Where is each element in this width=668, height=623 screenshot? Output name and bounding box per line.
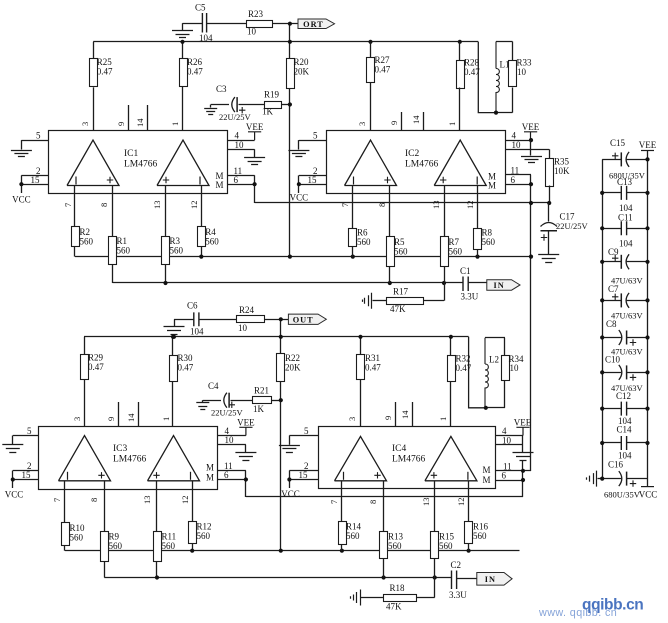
svg-text:VCC: VCC bbox=[5, 490, 24, 500]
IC1 right pin 10 wire to ground bbox=[228, 149, 255, 151]
svg-text:VEE: VEE bbox=[639, 140, 657, 150]
resistor R17 47K bbox=[444, 283, 446, 301]
svg-text:7: 7 bbox=[340, 203, 350, 207]
op-amp IC2 amp B triangle bbox=[434, 140, 486, 186]
svg-text:20K: 20K bbox=[285, 363, 301, 373]
ground at IC4 pin 4/10 column bbox=[522, 436, 524, 453]
svg-text:R20: R20 bbox=[294, 57, 310, 67]
svg-text:12: 12 bbox=[465, 201, 475, 210]
svg-text:R22: R22 bbox=[285, 353, 300, 363]
svg-text:VCC: VCC bbox=[12, 195, 31, 205]
svg-text:C10: C10 bbox=[605, 355, 621, 365]
IC2 left pins 2/15 wires bbox=[299, 175, 326, 177]
junction dots inverting bus bbox=[199, 255, 203, 259]
svg-text:C1: C1 bbox=[460, 266, 471, 276]
svg-text:12: 12 bbox=[189, 201, 199, 210]
svg-text:6: 6 bbox=[511, 175, 516, 185]
svg-text:C7: C7 bbox=[608, 284, 619, 294]
svg-text:C12: C12 bbox=[616, 391, 631, 401]
op-amp IC1 amp A triangle bbox=[67, 140, 119, 186]
svg-text:M: M bbox=[206, 473, 214, 483]
resistor R20 20K bbox=[289, 42, 291, 58]
inductor L1 with resistor R33 10 parallel network bbox=[496, 41, 513, 43]
resistor R29 0.47 bbox=[84, 337, 86, 355]
resistor R4 560 bbox=[198, 227, 206, 247]
svg-text:R18: R18 bbox=[390, 583, 406, 593]
svg-text:7: 7 bbox=[63, 203, 73, 207]
resistor R5 560 bbox=[387, 237, 395, 267]
node OUT output tag bbox=[288, 314, 326, 324]
svg-text:14: 14 bbox=[400, 410, 410, 419]
IC4 left pins 2/15 wires bbox=[289, 470, 318, 472]
wire: R22 feedback column bbox=[280, 319, 282, 550]
svg-text:M: M bbox=[206, 463, 214, 473]
svg-text:11: 11 bbox=[511, 165, 520, 175]
svg-text:0.47: 0.47 bbox=[88, 362, 104, 372]
svg-text:R12: R12 bbox=[197, 522, 212, 532]
resistor R12 560 bbox=[189, 522, 197, 544]
svg-text:560: 560 bbox=[197, 531, 211, 541]
svg-text:R28: R28 bbox=[464, 58, 480, 68]
op-amp IC2 LM4766 package box bbox=[327, 131, 506, 194]
IC1 top pin stubs 9 and 14 bbox=[128, 105, 130, 131]
resistor R26 0.47 bbox=[182, 42, 184, 59]
IC2 right pins 11/6 wires bbox=[505, 174, 531, 176]
wire: output net OUT bottom horizontal bus bbox=[84, 336, 469, 338]
svg-text:10: 10 bbox=[502, 435, 512, 445]
svg-text:R3: R3 bbox=[170, 236, 181, 246]
svg-text:C5: C5 bbox=[195, 3, 206, 13]
capacitor C9 47U/63V bbox=[602, 261, 621, 263]
capacitor C1 3.3U bbox=[463, 277, 468, 292]
capacitor C6 104 with leads bbox=[194, 312, 199, 326]
op-amp IC2 amp A triangle bbox=[345, 140, 397, 186]
svg-text:0.47: 0.47 bbox=[178, 363, 194, 373]
junction dots bottom inverting bus bbox=[190, 549, 194, 553]
svg-text:8: 8 bbox=[377, 203, 387, 207]
capacitor C15 680U/35V bbox=[602, 159, 621, 161]
wire: mute bus under IC3/IC4 bbox=[246, 496, 523, 498]
op-amp IC4 amp B triangle bbox=[425, 436, 477, 480]
ground at C5 / output bus bbox=[182, 23, 184, 30]
svg-text:13: 13 bbox=[431, 201, 441, 210]
node VCC at IC1 bbox=[19, 182, 23, 186]
svg-text:560: 560 bbox=[482, 237, 496, 247]
resistor R15 560 bbox=[431, 532, 439, 559]
resistor R28 0.47 bbox=[459, 42, 461, 60]
ground at IC1 pin 10 bbox=[244, 158, 265, 165]
op-amp IC3 LM4766 package box bbox=[39, 427, 218, 490]
resistor R3 560 bbox=[162, 237, 170, 265]
wire: long mute-net vertical x531 bbox=[530, 175, 532, 471]
svg-text:680U/35V: 680U/35V bbox=[604, 490, 641, 500]
capacitor C14 104 bbox=[602, 442, 621, 444]
svg-text:C2: C2 bbox=[451, 560, 462, 570]
node VCC at IC4 bbox=[287, 477, 291, 481]
svg-text:VEE: VEE bbox=[237, 418, 255, 428]
svg-text:5: 5 bbox=[313, 131, 318, 141]
svg-text:3: 3 bbox=[72, 417, 82, 421]
svg-text:R7: R7 bbox=[449, 237, 460, 247]
svg-text:8: 8 bbox=[99, 203, 109, 207]
svg-text:22U/25V: 22U/25V bbox=[219, 112, 252, 122]
IC1 left pins 2/15 wires bbox=[21, 175, 49, 177]
svg-text:22U/25V: 22U/25V bbox=[211, 408, 244, 418]
svg-text:22U/25V: 22U/25V bbox=[556, 221, 589, 231]
svg-text:10: 10 bbox=[235, 140, 245, 150]
svg-text:IC3: IC3 bbox=[113, 444, 128, 454]
IC3 right pin 4 wire and VEE bbox=[218, 435, 246, 437]
resistor R14 560 bbox=[339, 522, 347, 545]
IC4 right pin 10 wire bbox=[496, 444, 524, 446]
resistor R7 560 bbox=[441, 237, 449, 267]
wire: non-inverting input bus to C2 (R9/R11/R13/R15) bbox=[104, 577, 451, 579]
junction dots capacitor chain rails bbox=[600, 191, 604, 195]
svg-text:IC1: IC1 bbox=[124, 149, 139, 159]
svg-text:R8: R8 bbox=[482, 228, 493, 238]
svg-text:10K: 10K bbox=[554, 166, 570, 176]
node VCC at IC2 bbox=[297, 182, 301, 186]
svg-text:3.3U: 3.3U bbox=[449, 590, 467, 600]
svg-text:R29: R29 bbox=[88, 353, 104, 363]
IC2 left pin 5 wire bbox=[299, 140, 326, 142]
resistor R9 560 bbox=[101, 532, 109, 562]
svg-text:M: M bbox=[488, 181, 496, 191]
svg-text:47K: 47K bbox=[386, 602, 402, 612]
svg-text:VCC: VCC bbox=[290, 193, 309, 203]
svg-text:3: 3 bbox=[347, 417, 357, 421]
svg-text:R32: R32 bbox=[456, 354, 471, 364]
svg-text:R26: R26 bbox=[187, 57, 203, 67]
svg-text:9: 9 bbox=[389, 121, 399, 125]
svg-text:qqibb.cn: qqibb.cn bbox=[582, 597, 643, 614]
svg-text:R33: R33 bbox=[517, 58, 533, 68]
resistor R8 560 bbox=[474, 229, 482, 250]
svg-text:C16: C16 bbox=[608, 460, 624, 470]
node ORT output tag bbox=[298, 19, 335, 29]
svg-text:6: 6 bbox=[502, 471, 507, 481]
IC2 right pin 4 wire and VEE bbox=[505, 140, 531, 142]
svg-text:560: 560 bbox=[439, 541, 453, 551]
ground at IC4 pin5 bbox=[289, 436, 291, 445]
svg-text:15: 15 bbox=[22, 470, 32, 480]
capacitor C17 22U/25V electrolytic bbox=[548, 203, 550, 222]
wire: supply capacitor chain right rail bbox=[647, 150, 649, 487]
IC4 left pin 5 wire bbox=[289, 435, 318, 437]
capacitor C2 3.3U bbox=[452, 571, 457, 590]
svg-text:M: M bbox=[215, 180, 223, 190]
resistor R35 10K bbox=[549, 149, 551, 158]
capacitor C7 47U/63V bbox=[602, 300, 621, 302]
svg-text:C9: C9 bbox=[608, 247, 619, 257]
capacitor C5 104 with leads bbox=[202, 13, 206, 33]
node VCC at capacitor chain bottom bbox=[641, 486, 654, 488]
node IN input tag (lower) bbox=[477, 573, 512, 586]
op-amp IC1 LM4766 package box bbox=[49, 131, 228, 194]
IC1 bottom pin stubs bbox=[74, 186, 76, 228]
svg-text:0.47: 0.47 bbox=[97, 67, 113, 77]
svg-text:0.47: 0.47 bbox=[464, 67, 480, 77]
resistor R2 560 bbox=[72, 227, 80, 247]
svg-text:OUT: OUT bbox=[293, 315, 314, 324]
resistor R11 560 bbox=[154, 532, 162, 562]
ground at C4 bbox=[202, 400, 204, 402]
svg-text:47K: 47K bbox=[390, 304, 406, 314]
svg-text:560: 560 bbox=[388, 541, 402, 551]
svg-text:10: 10 bbox=[517, 67, 527, 77]
resistor R6 560 bbox=[349, 229, 357, 247]
svg-text:10: 10 bbox=[510, 363, 520, 373]
svg-text:7: 7 bbox=[52, 498, 62, 502]
svg-text:560: 560 bbox=[117, 246, 131, 256]
resistor R22 20K bbox=[277, 354, 285, 382]
svg-text:10: 10 bbox=[247, 27, 257, 37]
svg-text:M: M bbox=[482, 465, 490, 475]
svg-text:10: 10 bbox=[238, 323, 248, 333]
svg-text:C4: C4 bbox=[208, 381, 219, 391]
svg-text:0.47: 0.47 bbox=[375, 65, 391, 75]
svg-text:20K: 20K bbox=[294, 67, 310, 77]
svg-text:0.47: 0.47 bbox=[187, 67, 203, 77]
svg-text:L2: L2 bbox=[489, 355, 499, 365]
svg-text:0.47: 0.47 bbox=[456, 363, 472, 373]
resistor R31 0.47 bbox=[360, 337, 362, 355]
svg-text:1K: 1K bbox=[262, 107, 274, 117]
svg-text:C14: C14 bbox=[617, 425, 633, 435]
svg-text:560: 560 bbox=[80, 237, 94, 247]
wire: inverting 560-ohm bus bottom (R10/R12/R14/R16) bbox=[65, 550, 520, 552]
svg-text:R9: R9 bbox=[109, 532, 120, 542]
capacitor C10 47U/63V bbox=[602, 372, 621, 374]
IC2 right pin 10 wire to R35 bbox=[505, 149, 549, 151]
IC2 top pin stubs 9 and 14 bbox=[401, 112, 403, 131]
svg-text:R16: R16 bbox=[473, 522, 489, 532]
junction dots top output bus bbox=[180, 40, 184, 44]
IC3 top pin stubs 9 and 14 bbox=[118, 402, 120, 426]
svg-text:560: 560 bbox=[205, 237, 219, 247]
junction dots bottom output bus bbox=[171, 335, 175, 339]
svg-text:VEE: VEE bbox=[246, 122, 264, 132]
svg-text:C6: C6 bbox=[187, 301, 198, 311]
resistor R19 1K bbox=[265, 102, 282, 109]
svg-text:R11: R11 bbox=[162, 532, 177, 542]
IC1 right pin 4 wire and VEE bbox=[228, 140, 255, 142]
resistor R10 560 bbox=[62, 523, 70, 546]
svg-text:104: 104 bbox=[619, 239, 633, 249]
svg-text:R10: R10 bbox=[70, 523, 86, 533]
capacitor C11 104 bbox=[602, 228, 621, 230]
capacitor C8 47U/63V bbox=[602, 337, 621, 339]
ground at capacitor chain bottom bbox=[598, 478, 603, 480]
svg-text:IN: IN bbox=[494, 281, 505, 290]
svg-text:VCC: VCC bbox=[639, 490, 658, 500]
wire: non-inverting input bus to C1 (R1/R3/R5/R7) bbox=[113, 282, 464, 284]
svg-text:15: 15 bbox=[308, 175, 318, 185]
svg-text:7: 7 bbox=[329, 500, 339, 504]
ground at IC1 pin5 bbox=[21, 140, 23, 149]
svg-text:10: 10 bbox=[225, 435, 235, 445]
resistor R18 47K bbox=[434, 578, 436, 598]
op-amp IC4 LM4766 package box bbox=[319, 427, 496, 489]
svg-text:560: 560 bbox=[109, 541, 123, 551]
IC4 bottom pin stubs bbox=[341, 481, 343, 522]
IC4 top pin stubs 9 and 14 bbox=[395, 402, 397, 427]
svg-text:9: 9 bbox=[116, 122, 126, 126]
svg-text:5: 5 bbox=[36, 131, 41, 141]
svg-text:R14: R14 bbox=[346, 522, 362, 532]
ground at C17 bbox=[548, 231, 550, 255]
ground at IC2 pin 4 bbox=[530, 140, 532, 155]
wire: L2 network drop from output bus bbox=[469, 337, 485, 408]
ground at C3 bbox=[210, 105, 212, 108]
resistor R21 1K bbox=[253, 397, 272, 404]
svg-text:13: 13 bbox=[152, 201, 162, 210]
svg-text:R6: R6 bbox=[357, 228, 368, 238]
svg-text:C15: C15 bbox=[610, 138, 626, 148]
svg-text:ORT: ORT bbox=[303, 20, 324, 29]
svg-text:104: 104 bbox=[190, 327, 204, 337]
svg-text:LM4766: LM4766 bbox=[392, 455, 426, 465]
ground at IC3 pin 10 bbox=[235, 453, 256, 461]
svg-text:IN: IN bbox=[485, 575, 496, 584]
op-amp IC1 amp B triangle bbox=[157, 140, 209, 186]
resistor R25 0.47 bbox=[93, 42, 95, 59]
svg-text:5: 5 bbox=[304, 426, 309, 436]
svg-text:8: 8 bbox=[89, 498, 99, 502]
svg-text:LM4766: LM4766 bbox=[124, 160, 158, 170]
svg-text:R13: R13 bbox=[388, 532, 404, 542]
IC1 left pin 5 wire bbox=[21, 140, 49, 142]
svg-text:LM4766: LM4766 bbox=[405, 160, 439, 170]
wire: supply capacitor chain left rail bbox=[602, 159, 604, 478]
svg-text:14: 14 bbox=[135, 118, 145, 127]
wire: output net ORT top horizontal bus bbox=[93, 41, 478, 43]
svg-text:15: 15 bbox=[31, 175, 41, 185]
svg-text:3: 3 bbox=[357, 122, 367, 126]
svg-text:560: 560 bbox=[162, 541, 176, 551]
svg-text:R1: R1 bbox=[117, 236, 128, 246]
node VCC at IC3 bbox=[11, 477, 15, 481]
junction dots bottom non-inverting bus bbox=[155, 575, 159, 579]
svg-text:VEE: VEE bbox=[514, 418, 532, 428]
svg-text:R25: R25 bbox=[97, 57, 113, 67]
svg-text:1: 1 bbox=[447, 122, 457, 126]
resistor R30 0.47 bbox=[172, 337, 174, 356]
resistor R23 10 bbox=[247, 21, 273, 28]
svg-text:9: 9 bbox=[106, 417, 116, 421]
IC3 left pins 2/15 wires bbox=[13, 470, 39, 472]
svg-text:R19: R19 bbox=[264, 90, 280, 100]
svg-text:R17: R17 bbox=[393, 287, 409, 297]
node IN input tag (upper) bbox=[487, 280, 520, 291]
svg-text:M: M bbox=[482, 475, 490, 485]
svg-text:R35: R35 bbox=[554, 157, 570, 167]
svg-text:560: 560 bbox=[170, 246, 184, 256]
resistor R1 560 bbox=[109, 237, 117, 265]
IC3 right pins 11/6 wires bbox=[218, 470, 246, 472]
junction dots mute bus bbox=[529, 201, 533, 205]
wire: mute bus under IC1/IC2 (pin 6/11 net) bbox=[255, 202, 550, 204]
svg-text:13: 13 bbox=[142, 496, 152, 505]
svg-text:560: 560 bbox=[357, 237, 371, 247]
IC4 right pins 11/6 wires bbox=[496, 470, 532, 472]
ground at C6 / output bus bbox=[174, 319, 176, 326]
svg-text:R2: R2 bbox=[80, 227, 91, 237]
svg-text:1: 1 bbox=[170, 122, 180, 126]
IC2 bottom pin stubs bbox=[352, 186, 354, 229]
svg-text:12: 12 bbox=[180, 496, 190, 505]
svg-text:C13: C13 bbox=[617, 177, 633, 187]
svg-text:104: 104 bbox=[199, 33, 213, 43]
IC4 right pin 4 wire and VEE bbox=[496, 435, 524, 437]
svg-text:13: 13 bbox=[421, 498, 431, 507]
svg-text:0.47: 0.47 bbox=[365, 363, 381, 373]
IC3 right pin 10 wire to ground bbox=[218, 444, 246, 446]
ground at R17 bbox=[363, 293, 372, 309]
svg-text:3: 3 bbox=[80, 122, 90, 126]
ground at IC3 pin5 bbox=[12, 436, 14, 445]
svg-text:C11: C11 bbox=[618, 213, 633, 223]
svg-text:1: 1 bbox=[161, 417, 171, 421]
svg-text:8: 8 bbox=[368, 500, 378, 504]
svg-text:C8: C8 bbox=[606, 319, 617, 329]
ground at IC2 pin5 bbox=[298, 140, 300, 149]
svg-text:R4: R4 bbox=[205, 227, 216, 237]
svg-text:LM4766: LM4766 bbox=[113, 455, 147, 465]
svg-text:15: 15 bbox=[299, 470, 309, 480]
svg-text:IC2: IC2 bbox=[405, 149, 420, 159]
resistor R27 0.47 bbox=[370, 42, 372, 58]
IC3 bottom pin stubs bbox=[64, 481, 66, 523]
svg-text:3.3U: 3.3U bbox=[461, 292, 479, 302]
inductor L2 with resistor R34 10 parallel network bbox=[485, 337, 505, 339]
svg-text:C17: C17 bbox=[560, 212, 576, 222]
svg-text:VCC: VCC bbox=[281, 489, 300, 499]
svg-text:12: 12 bbox=[456, 498, 466, 507]
svg-text:560: 560 bbox=[473, 531, 487, 541]
svg-text:6: 6 bbox=[234, 175, 239, 185]
capacitor C13 104 bbox=[602, 192, 621, 194]
svg-text:14: 14 bbox=[126, 413, 136, 422]
op-amp IC3 amp A triangle bbox=[59, 436, 111, 481]
wire: L1 network drop from output bus bbox=[478, 42, 496, 113]
svg-text:R31: R31 bbox=[365, 353, 380, 363]
resistor R24 10 bbox=[237, 316, 265, 323]
svg-text:1: 1 bbox=[438, 417, 448, 421]
svg-text:14: 14 bbox=[411, 115, 421, 124]
svg-text:R30: R30 bbox=[178, 353, 194, 363]
svg-text:R24: R24 bbox=[239, 305, 255, 315]
svg-text:5: 5 bbox=[27, 426, 32, 436]
svg-text:9: 9 bbox=[383, 416, 393, 420]
op-amp IC4 amp A triangle bbox=[335, 436, 387, 480]
svg-text:1K: 1K bbox=[253, 404, 265, 414]
svg-text:IC4: IC4 bbox=[392, 444, 407, 454]
svg-text:R23: R23 bbox=[248, 9, 264, 19]
wire: inverting 560-ohm bus (R2/R4/R6/R8) bbox=[75, 256, 531, 258]
svg-text:560: 560 bbox=[394, 247, 408, 257]
resistor R32 0.47 bbox=[450, 337, 452, 356]
svg-text:560: 560 bbox=[449, 247, 463, 257]
op-amp IC3 amp B triangle bbox=[148, 436, 200, 481]
resistor R13 560 bbox=[380, 532, 388, 559]
svg-text:560: 560 bbox=[70, 533, 84, 543]
svg-text:6: 6 bbox=[224, 470, 229, 480]
IC3 left pin 5 wire bbox=[13, 435, 39, 437]
wire: OUT junction vertical bbox=[279, 317, 283, 321]
capacitor C16 680U/35V bbox=[602, 478, 621, 480]
wire: ORT junction vertical bbox=[289, 24, 291, 42]
